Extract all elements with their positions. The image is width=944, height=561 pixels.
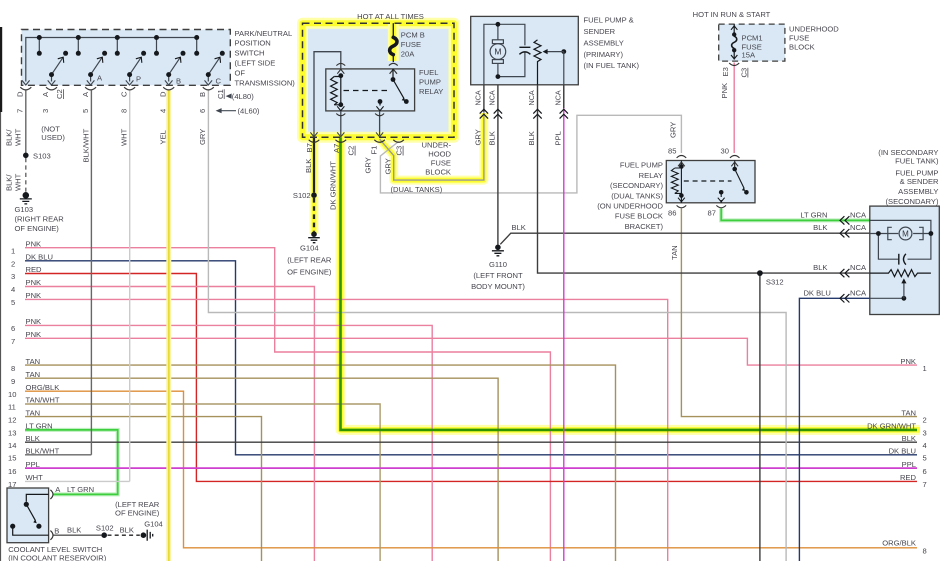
svg-text:15A: 15A: [742, 50, 756, 59]
wire row8 TAN: [25, 365, 616, 561]
primary pump box fill: [471, 16, 579, 84]
svg-text:ORG/BLK: ORG/BLK: [26, 383, 60, 392]
svg-text:6: 6: [11, 324, 15, 333]
svg-text:4: 4: [923, 441, 927, 450]
relay dashed link: [344, 90, 391, 92]
svg-text:(DUAL TANKS): (DUAL TANKS): [611, 191, 663, 200]
svg-text:G104: G104: [144, 519, 163, 528]
svg-text:1: 1: [923, 364, 927, 373]
svg-text:PCM B: PCM B: [401, 30, 425, 39]
wire row7 PNK to right row1: [25, 338, 917, 365]
svg-text:BLOCK: BLOCK: [425, 167, 451, 176]
svg-text:9: 9: [11, 377, 15, 386]
svg-text:GRY: GRY: [668, 122, 677, 138]
svg-text:16: 16: [8, 467, 16, 476]
svg-text:6: 6: [198, 109, 207, 113]
svg-text:FUSE: FUSE: [789, 34, 809, 43]
svg-text:C3: C3: [395, 146, 404, 156]
relay pin wires: [314, 52, 380, 138]
svg-text:GRY: GRY: [198, 129, 207, 145]
svg-text:D: D: [16, 91, 25, 97]
wire pin7 BLK/WHT to S103: [25, 91, 27, 153]
svg-text:PNK: PNK: [26, 239, 42, 248]
svg-text:TAN: TAN: [26, 370, 41, 379]
svg-text:P: P: [136, 75, 141, 84]
svg-text:(IN COOLANT RESERVOIR): (IN COOLANT RESERVOIR): [8, 553, 107, 561]
svg-text:DK GRN/WHT: DK GRN/WHT: [328, 161, 337, 210]
svg-text:NCA: NCA: [487, 90, 496, 105]
switch arms: [52, 57, 64, 74]
coolant switch contacts: [26, 494, 48, 501]
ground G103: [20, 193, 32, 204]
chevron connectors below primary pump: [480, 109, 568, 118]
svg-text:(SECONDARY): (SECONDARY): [885, 197, 938, 206]
svg-text:TAN: TAN: [26, 357, 41, 366]
svg-text:FUEL: FUEL: [419, 68, 438, 77]
bump below PCM1 box: [729, 63, 739, 66]
svg-text:17: 17: [8, 480, 16, 489]
coolant level switch box fill: [7, 488, 49, 543]
svg-text:PARK/NEUTRAL: PARK/NEUTRAL: [235, 29, 293, 38]
capacitor: [519, 46, 530, 48]
svg-text:DK BLU: DK BLU: [803, 288, 830, 297]
svg-text:HOT IN RUN & START: HOT IN RUN & START: [693, 10, 771, 19]
svg-text:FUEL TANK): FUEL TANK): [895, 156, 939, 165]
wiper: [902, 296, 907, 301]
svg-text:G110: G110: [489, 260, 507, 269]
bus junction dots: [37, 35, 225, 77]
svg-text:3: 3: [923, 429, 927, 438]
svg-text:GRY: GRY: [474, 129, 483, 145]
highlight PCM B fuse: [388, 24, 399, 61]
svg-text:C2: C2: [55, 89, 64, 99]
dashed BLK S102 to G104: [108, 534, 140, 536]
svg-text:13: 13: [8, 429, 16, 438]
svg-text:D: D: [158, 91, 167, 97]
fuse PCM B 20A: [390, 23, 397, 62]
wire BLK S312 down: [759, 273, 761, 561]
wire row16 PPL to right row6: [25, 467, 917, 469]
ground G104 (coolant): [141, 532, 147, 538]
svg-text:1: 1: [11, 246, 15, 255]
secondary relay switch: [734, 161, 736, 169]
svg-text:M: M: [902, 229, 909, 238]
motor with brackets: [888, 227, 892, 239]
svg-text:NCA: NCA: [553, 90, 562, 105]
connector bumps below yellow box: [309, 140, 404, 143]
svg-text:(4L60): (4L60): [238, 106, 260, 115]
svg-text:WHT: WHT: [14, 128, 23, 146]
svg-text:S312: S312: [766, 278, 784, 287]
svg-text:RED: RED: [26, 265, 43, 274]
down arrows at yellow box bottom: [310, 132, 383, 136]
wire row9 TAN: [25, 378, 498, 561]
svg-text:LT GRN: LT GRN: [26, 422, 53, 431]
svg-text:PNK: PNK: [900, 357, 916, 366]
wire GRY primary pump pin stub: [483, 85, 485, 112]
svg-text:GRY: GRY: [384, 158, 393, 174]
highlight DK GRN/WHT A7 wire to right row 3: [341, 137, 921, 430]
svg-text:PNK: PNK: [26, 317, 42, 326]
secondary pump box fill: [870, 206, 940, 314]
svg-text:8: 8: [923, 546, 927, 555]
svg-text:7: 7: [16, 109, 25, 113]
svg-text:NCA: NCA: [850, 263, 867, 272]
svg-text:S102: S102: [96, 524, 114, 533]
fuel pump relay box: [326, 69, 415, 111]
svg-text:3: 3: [41, 109, 50, 113]
svg-text:87: 87: [708, 208, 716, 217]
svg-text:(LEFT REAR: (LEFT REAR: [287, 255, 332, 264]
svg-text:FUSE: FUSE: [431, 158, 451, 167]
svg-text:DK BLU: DK BLU: [889, 447, 916, 456]
svg-text:BRACKET): BRACKET): [625, 222, 664, 231]
svg-text:C1: C1: [216, 89, 225, 99]
wire row5 PNK: [25, 299, 668, 561]
svg-text:TAN/WHT: TAN/WHT: [26, 396, 60, 405]
svg-text:DK GRN/WHT: DK GRN/WHT: [867, 422, 916, 431]
svg-text:FUSE: FUSE: [401, 40, 421, 49]
svg-text:8: 8: [11, 364, 15, 373]
splice S102: [311, 192, 317, 198]
svg-text:M: M: [494, 47, 501, 57]
svg-text:2: 2: [11, 260, 15, 269]
motor M: [492, 40, 503, 44]
svg-text:B: B: [198, 92, 207, 97]
svg-text:20A: 20A: [401, 49, 415, 58]
ground G110: [495, 245, 501, 251]
chevron connectors left of secondary pump: [840, 216, 849, 302]
dashed border: [303, 23, 455, 137]
svg-text:PPL: PPL: [26, 460, 40, 469]
svg-text:5: 5: [11, 298, 15, 307]
svg-text:3: 3: [11, 272, 15, 281]
wire row1 PNK: [25, 248, 550, 561]
svg-text:PPL: PPL: [553, 131, 562, 145]
pin stubs: [681, 161, 721, 203]
svg-text:BODY MOUNT): BODY MOUNT): [471, 282, 525, 291]
ground G104: [311, 231, 317, 237]
svg-text:SENDER: SENDER: [584, 27, 616, 36]
wire row14 BLK to right row4: [25, 441, 917, 443]
wire BLK primary sender through S312 to secondary pump: [538, 85, 870, 273]
svg-text:BLK: BLK: [67, 526, 81, 535]
svg-text:DK BLU: DK BLU: [26, 253, 53, 262]
connector bumps below PNP box: [20, 87, 214, 90]
svg-text:OF ENGINE): OF ENGINE): [15, 224, 60, 233]
svg-text:B: B: [54, 526, 59, 535]
bus wire: [26, 38, 197, 82]
wire DK GRN/WHT core A7 to right row3: [341, 137, 918, 430]
svg-text:(LEFT SIDE: (LEFT SIDE: [235, 59, 276, 68]
capacitor branch: [498, 52, 525, 77]
svg-text:(4L80): (4L80): [232, 92, 254, 101]
internal feed: [484, 24, 525, 85]
svg-text:BLK: BLK: [902, 434, 916, 443]
svg-text:BLK: BLK: [512, 223, 526, 232]
svg-text:(DUAL TANKS): (DUAL TANKS): [391, 185, 443, 194]
highlight GRY F1 wire to primary pump: [380, 113, 484, 180]
svg-text:BLK: BLK: [813, 263, 827, 272]
svg-text:PNK: PNK: [26, 278, 42, 287]
svg-text:BLK: BLK: [488, 131, 497, 145]
svg-text:(SECONDARY): (SECONDARY): [610, 181, 663, 190]
svg-text:(IN FUEL TANK): (IN FUEL TANK): [584, 61, 640, 70]
svg-text:RED: RED: [900, 473, 917, 482]
wire PPL primary pump down: [563, 85, 565, 561]
fuse PCM1 15A: [733, 24, 735, 59]
svg-text:BLK: BLK: [26, 434, 40, 443]
svg-text:7: 7: [923, 480, 927, 489]
svg-text:10: 10: [8, 390, 16, 399]
svg-text:BLK/WHT: BLK/WHT: [26, 447, 60, 456]
wire PNK from PCM1 fuse to relay pin30: [733, 63, 735, 154]
svg-text:BLK: BLK: [527, 131, 536, 145]
svg-text:5: 5: [923, 454, 927, 463]
wire row13 LT GRN to coolant switch pin A: [25, 430, 118, 495]
svg-text:WHT: WHT: [26, 473, 44, 482]
svg-text:BLK/WHT: BLK/WHT: [81, 128, 90, 162]
svg-text:86: 86: [668, 208, 676, 217]
svg-text:G104: G104: [300, 243, 319, 252]
svg-text:NCA: NCA: [473, 90, 482, 105]
svg-text:A7: A7: [332, 144, 341, 153]
svg-text:UNDER-: UNDER-: [421, 140, 451, 149]
wire row11 TAN/WHT: [25, 404, 380, 561]
wire TAN from relay pin86 to right row2: [681, 209, 917, 417]
node (4L80) arrowheads: [226, 94, 232, 99]
wire pin4 YEL: [166, 91, 171, 561]
pivot drops: [51, 75, 53, 82]
wire BLK G110 to secondary pump: [500, 233, 870, 244]
bumps around secondary relay: [677, 156, 740, 208]
pin bumps: [50, 490, 53, 499]
svg-text:6: 6: [923, 467, 927, 476]
svg-text:PNK: PNK: [26, 291, 42, 300]
svg-text:7: 7: [11, 337, 15, 346]
svg-text:POSITION: POSITION: [235, 39, 271, 48]
fixed contact drops: [38, 38, 40, 54]
svg-text:RELAY: RELAY: [639, 171, 663, 180]
svg-text:F1: F1: [369, 146, 378, 155]
svg-text:PPL: PPL: [902, 460, 916, 469]
svg-text:NCA: NCA: [527, 90, 536, 105]
splice S312: [757, 270, 763, 276]
wire pin6 GRY: [208, 91, 786, 561]
highlight BLK B7 wire to G104: [310, 137, 319, 234]
wire row4 PNK: [25, 287, 314, 561]
wire pin B BLK to S102: [54, 534, 102, 536]
pin exit arrowheads: [22, 80, 212, 85]
motor leads: [497, 24, 499, 76]
page edge bar: [0, 27, 2, 112]
svg-text:ASSEMBLY: ASSEMBLY: [898, 187, 938, 196]
svg-text:E3: E3: [721, 67, 730, 76]
relay switch: [392, 69, 394, 79]
svg-text:BLK: BLK: [813, 223, 827, 232]
svg-text:11: 11: [8, 403, 16, 412]
svg-text:12: 12: [8, 415, 16, 424]
svg-text:UNDERHOOD: UNDERHOOD: [789, 25, 839, 34]
capacitor: [898, 254, 900, 265]
svg-text:TAN: TAN: [670, 245, 679, 260]
svg-text:NCA: NCA: [850, 223, 867, 232]
splice S103: [23, 153, 29, 159]
wire BLK primary motor to G110: [497, 85, 499, 245]
svg-text:30: 30: [721, 147, 729, 156]
svg-text:NCA: NCA: [850, 211, 867, 220]
svg-text:TAN: TAN: [901, 408, 916, 417]
svg-text:FUEL PUMP &: FUEL PUMP &: [584, 16, 634, 25]
svg-text:(RIGHT REAR: (RIGHT REAR: [15, 214, 65, 223]
svg-text:PUMP: PUMP: [419, 78, 441, 87]
PCM1 fuse box fill: [719, 24, 785, 61]
svg-text:BLK/: BLK/: [5, 129, 14, 146]
svg-text:BLK/: BLK/: [5, 174, 14, 191]
svg-text:4: 4: [11, 285, 15, 294]
svg-text:FUSE BLOCK: FUSE BLOCK: [615, 212, 663, 221]
svg-text:S103: S103: [33, 151, 51, 160]
svg-text:PNK: PNK: [720, 83, 729, 99]
wire GRY core on highlighted F1 path: [380, 112, 484, 180]
svg-text:LT GRN: LT GRN: [67, 485, 94, 494]
svg-text:C3: C3: [740, 68, 749, 78]
park/neutral position switch box fill: [22, 30, 231, 86]
wire GRY dual-tanks C3 to secondary relay 85: [380, 115, 681, 193]
relay coil: [331, 77, 338, 105]
wire row17 WHT: [25, 480, 130, 482]
svg-text:B: B: [176, 77, 181, 86]
sender resistor horizontal: [870, 270, 931, 277]
svg-text:B7: B7: [305, 143, 314, 152]
wire row6 PNK: [25, 325, 432, 561]
svg-text:5: 5: [81, 109, 90, 113]
svg-text:2: 2: [923, 415, 927, 424]
wire LT GRN from relay pin87 to secondary pump: [721, 209, 870, 221]
svg-text:BLOCK: BLOCK: [789, 43, 815, 52]
svg-text:ASSEMBLY: ASSEMBLY: [584, 39, 624, 48]
svg-text:LT GRN: LT GRN: [800, 211, 827, 220]
svg-text:85: 85: [668, 147, 676, 156]
svg-text:C: C: [119, 91, 128, 97]
underhood fuse block (yellow) box fill: [303, 23, 455, 137]
svg-text:(PRIMARY): (PRIMARY): [584, 50, 624, 59]
svg-text:GRY: GRY: [363, 157, 372, 173]
svg-text:USED): USED): [41, 133, 65, 142]
secondary relay coil: [671, 168, 678, 193]
svg-text:TAN: TAN: [26, 408, 41, 417]
wire row2 DK BLU to right row5: [25, 261, 917, 455]
wire DK BLU secondary pump down: [799, 298, 869, 561]
svg-text:OF: OF: [235, 68, 246, 77]
wire pin5 BLK/WHT to row15: [90, 91, 92, 455]
svg-text:SWITCH: SWITCH: [235, 49, 265, 58]
svg-text:(LEFT FRONT: (LEFT FRONT: [473, 271, 523, 280]
highlight around underhood fuse block border: [303, 23, 921, 430]
wire row12 TAN: [25, 417, 262, 561]
svg-text:WHT: WHT: [14, 173, 23, 191]
svg-text:TRANSMISSION): TRANSMISSION): [235, 78, 296, 87]
svg-text:OF ENGINE): OF ENGINE): [287, 267, 332, 276]
svg-text:HOT AT ALL TIMES: HOT AT ALL TIMES: [357, 12, 424, 21]
svg-text:FUEL PUMP: FUEL PUMP: [620, 161, 663, 170]
svg-text:15: 15: [8, 454, 16, 463]
svg-text:PNK: PNK: [26, 330, 42, 339]
svg-text:WHT: WHT: [120, 128, 129, 146]
arm arrowheads: [58, 55, 223, 63]
svg-text:BLK: BLK: [304, 159, 313, 173]
svg-text:4: 4: [158, 109, 167, 113]
wiper: [561, 49, 566, 54]
wire S103 dashed BLK/WHT to G103: [25, 158, 27, 193]
svg-text:PCM1: PCM1: [742, 33, 763, 42]
svg-text:HOOD: HOOD: [428, 149, 451, 158]
svg-text:S102: S102: [293, 191, 311, 200]
svg-text:NCA: NCA: [850, 288, 867, 297]
svg-text:C2: C2: [347, 146, 356, 156]
svg-text:& SENDER: & SENDER: [900, 177, 939, 186]
svg-text:ORG/BLK: ORG/BLK: [882, 539, 916, 548]
wire row10 ORG/BLK to right row8: [25, 391, 917, 548]
connector socket and pin fuse to relay: [389, 63, 398, 73]
secondary relay box fill: [666, 161, 755, 203]
svg-text:RELAY: RELAY: [419, 87, 443, 96]
svg-text:8: 8: [119, 109, 128, 113]
bumps at relay border crossings: [336, 63, 384, 115]
svg-text:YEL: YEL: [159, 130, 168, 144]
park/neutral position switch dashed border: [22, 30, 231, 86]
svg-text:14: 14: [8, 441, 16, 450]
wire BLK core B7 to S102: [313, 137, 315, 192]
sender resistor: [534, 40, 541, 85]
wire row15 BLK/WHT: [25, 454, 91, 456]
svg-text:G103: G103: [15, 205, 34, 214]
wire dashed BLK S102 to G104: [313, 198, 315, 231]
svg-text:(ON UNDERHOOD: (ON UNDERHOOD: [597, 202, 663, 211]
svg-text:OF ENGINE): OF ENGINE): [115, 508, 160, 517]
wire row3 RED to right row7: [25, 274, 917, 482]
svg-text:C: C: [216, 77, 222, 86]
wire pin8 WHT to row17: [129, 91, 131, 482]
svg-text:BLK: BLK: [120, 526, 134, 535]
